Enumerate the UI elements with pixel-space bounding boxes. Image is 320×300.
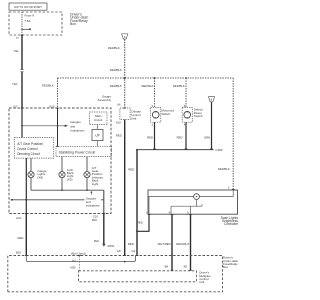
wire WHT/RED pin 4 to MICU B4 <box>158 215 172 270</box>
svg-text:A/T Gear Position/: A/T Gear Position/ <box>17 142 43 146</box>
terminal G4 <box>136 254 139 257</box>
svg-text:Unit: Unit <box>131 116 137 120</box>
terminal B4 <box>171 269 174 272</box>
svg-text:B4: B4 <box>165 265 169 269</box>
svg-text:RED: RED <box>147 136 153 140</box>
junction at connector A wire <box>124 77 126 79</box>
branch to brightness controller pin 2 (dashed, right side) <box>218 78 233 190</box>
joint connector C450 <box>136 148 223 152</box>
arrow from gauges and indications (lower) <box>90 191 92 195</box>
wire RED from climate control unit <box>116 120 125 256</box>
wire A15 inside gauge assembly <box>57 108 59 146</box>
svg-text:B3: B3 <box>184 265 188 269</box>
link main circuit to UP <box>96 125 98 130</box>
controller internal: drop to pin 5 <box>190 206 192 214</box>
pin 5 terminal <box>189 213 192 216</box>
svg-text:RED/WHT: RED/WHT <box>176 242 189 246</box>
wire RED from moonroof switch <box>147 122 154 149</box>
dash lights brightness controller <box>148 190 238 214</box>
svg-text:A6: A6 <box>117 103 121 107</box>
wire BLK to ground <box>94 214 104 244</box>
link UP to stabilizing power circuit <box>96 141 98 147</box>
stabilizing power circuit box <box>56 146 112 156</box>
svg-text:RED: RED <box>177 136 183 140</box>
svg-text:Light: Light <box>92 182 99 186</box>
svg-text:RED: RED <box>128 242 134 246</box>
svg-text:RED: RED <box>17 236 23 240</box>
svg-text:RED/BLK: RED/BLK <box>218 167 230 171</box>
svg-text:Stabilizing Power Circuit: Stabilizing Power Circuit <box>59 151 96 155</box>
RED/BLK distribution bus (dashed) <box>58 77 234 79</box>
svg-text:RED: RED <box>116 134 122 138</box>
in-line connector on YEL wire <box>21 68 24 71</box>
fuse F9 feed (dashed) <box>21 12 23 29</box>
terminal A15 wire at stabilizing box <box>56 145 59 148</box>
svg-text:Cruise Control: Cruise Control <box>17 147 38 151</box>
bulb: A/T gear position indicator back light <box>84 166 103 186</box>
ground G501 <box>102 244 115 248</box>
svg-text:WHT/RED: WHT/RED <box>158 242 171 246</box>
terminal B15 <box>25 254 28 257</box>
pin 2 terminal <box>232 188 235 191</box>
svg-text:HOT IN ON OR START: HOT IN ON OR START <box>14 5 42 9</box>
svg-text:RED: RED <box>128 167 134 171</box>
fuse 9 element <box>21 28 31 30</box>
label: Driver's Under-dash Fuse/Relay Box <box>70 12 88 26</box>
branch to A15 (dashed) <box>57 78 59 108</box>
svg-text:BLK: BLK <box>94 239 99 243</box>
entry terminal G7 <box>21 107 24 110</box>
hot-in-on-or-start title box <box>9 3 47 10</box>
label: Driver's Under-dash Fuse/Relay Box (bottom right) <box>223 256 238 270</box>
driver's under-dash fuse/relay box (top) <box>9 12 62 35</box>
svg-text:RED/BLK: RED/BLK <box>173 84 185 88</box>
wire RED from select/reset switch <box>177 122 186 149</box>
gauge assembly box <box>9 108 111 214</box>
label: Dash Lights Brightness Controller <box>221 216 239 226</box>
controller internal: drop to pin 4 <box>170 206 172 214</box>
exit terminal A10 <box>25 212 28 215</box>
svg-text:Box: Box <box>70 22 76 26</box>
svg-text:Dimming Circuit: Dimming Circuit <box>17 152 40 156</box>
terminal G8 <box>123 254 126 257</box>
svg-text:Unit: Unit <box>199 280 204 284</box>
driver's multiplex control unit box <box>79 271 197 282</box>
terminal (not used) <box>78 254 81 257</box>
svg-text:RED/BLK: RED/BLK <box>142 84 154 88</box>
svg-text:UP: UP <box>95 134 99 138</box>
svg-text:YEL: YEL <box>12 82 18 86</box>
svg-text:7.5A: 7.5A <box>25 19 31 23</box>
svg-text:B15: B15 <box>16 251 21 255</box>
exit terminal C10 <box>103 212 106 215</box>
harness connector B (top right) <box>208 97 214 102</box>
svg-text:(X8): (X8) <box>37 175 43 179</box>
wire YEL from fuse box pin H <box>21 35 23 69</box>
ground riser to C10 <box>103 190 105 213</box>
terminal H <box>21 34 24 37</box>
harness connector A (top middle) <box>122 34 128 39</box>
wire RED gauge A10 to B15 <box>17 214 26 256</box>
feed line to gauges and indications <box>22 125 68 127</box>
svg-text:(X5): (X5) <box>67 177 73 181</box>
pin 4 terminal <box>171 213 174 216</box>
branch to moonroof switch (dashed) <box>142 77 156 107</box>
svg-text:H2: H2 <box>72 258 76 262</box>
UP box <box>92 129 103 140</box>
svg-text:G4: G4 <box>131 249 135 253</box>
svg-text:Fuse 9: Fuse 9 <box>25 14 35 18</box>
svg-text:G501: G501 <box>107 244 115 248</box>
svg-text:YEL: YEL <box>14 49 20 53</box>
secondary ground bus <box>11 199 104 201</box>
wire G7 inside gauge assembly <box>21 108 23 138</box>
wire RED from C450 to controller/MICU <box>128 150 137 256</box>
A/T gear position / cruise control dimming circuit box <box>14 138 53 159</box>
wire RED/WHT pin 5 to MICU B3 <box>176 215 190 270</box>
controller dimmer wheel <box>194 194 200 200</box>
lamp ground bus <box>31 189 104 191</box>
driver's under-dash fuse/relay box (bottom) <box>8 256 223 292</box>
fuse 9 value label <box>25 14 35 23</box>
controller internal: drop to pin 1 <box>148 197 150 215</box>
entry terminal A15 <box>56 107 59 110</box>
svg-text:Assembly: Assembly <box>98 98 112 102</box>
terminal B3 <box>189 269 192 272</box>
svg-text:GRN: GRN <box>204 136 210 140</box>
pin 1 terminal <box>148 213 151 216</box>
svg-text:G8: G8 <box>117 249 121 253</box>
select/reset switch <box>182 104 203 127</box>
svg-text:RED/BLK: RED/BLK <box>108 46 120 50</box>
svg-text:Indications: Indications <box>70 129 85 133</box>
lamp return stubs <box>30 178 32 191</box>
svg-text:BLK: BLK <box>92 218 97 222</box>
bulb: LCD back light (X5) <box>59 168 74 181</box>
internal link B15-G8-G4 <box>26 256 135 263</box>
svg-text:Box: Box <box>223 265 229 269</box>
svg-text:RED/BLK: RED/BLK <box>42 83 54 87</box>
label: Gauges and Indications (upper) <box>70 120 85 132</box>
label background patch <box>85 195 102 208</box>
link not-used pin to MICU (dashed) <box>78 256 80 271</box>
bulb: gauge lights (X8) <box>28 169 47 179</box>
controller internal: wiper to output rail <box>196 200 198 207</box>
wire RED pin 1 branch to MICU feed <box>136 215 149 232</box>
svg-text:H: H <box>16 36 18 40</box>
wire GRN from connector B <box>204 102 212 149</box>
label: Gauge Assembly <box>98 94 112 102</box>
moonroof switch <box>151 104 175 127</box>
label: Gauges and Indications (lower) <box>86 196 100 207</box>
label: Driver's Multiplex Control Unit <box>199 271 211 285</box>
svg-text:Controller: Controller <box>224 222 239 226</box>
svg-text:A10: A10 <box>116 121 121 125</box>
svg-text:Switch: Switch <box>162 112 171 116</box>
wire RED/BLK from connector A (dashed) <box>124 39 126 108</box>
svg-text:RED: RED <box>137 221 143 225</box>
fuse output (dashed) <box>21 29 23 35</box>
lamp feed stubs <box>30 158 32 172</box>
junction on G7 wire <box>21 125 23 127</box>
main circuit box <box>90 112 108 125</box>
svg-text:Circuit: Circuit <box>94 118 102 122</box>
svg-text:A10: A10 <box>16 216 22 220</box>
wire YEL continues to gauge assembly <box>21 72 23 108</box>
svg-text:Switch: Switch <box>194 114 203 118</box>
controller internal: supply rail <box>232 190 234 197</box>
dimmer output wire to A10 <box>25 158 27 213</box>
svg-text:Indications: Indications <box>86 204 100 208</box>
svg-text:RED/BLK: RED/BLK <box>110 84 122 88</box>
svg-text:(Not Used): (Not Used) <box>71 251 86 255</box>
svg-text:M35: M35 <box>70 266 76 270</box>
climate control unit <box>116 103 142 125</box>
svg-text:RED/BLK: RED/BLK <box>110 68 122 72</box>
branch to select/reset switch (dashed) <box>173 77 187 107</box>
svg-text:C450: C450 <box>215 148 223 152</box>
